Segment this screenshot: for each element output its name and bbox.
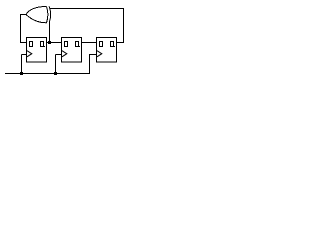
wire: FF2 clock stub xyxy=(55,55,57,74)
flip-flop U4 pin label Q xyxy=(110,41,115,47)
flip-flop U2 clock triangle xyxy=(27,51,32,57)
flip-flop U3 pin label D xyxy=(64,41,68,47)
background xyxy=(0,0,137,90)
wire: FF2 Q to FF3 D xyxy=(82,42,97,44)
wire: xor output stub xyxy=(21,14,27,16)
xor gate U1 (mirrored, output at left) xyxy=(26,7,51,23)
wire: xor bottom input tap down xyxy=(49,21,51,43)
flip-flop U2 box xyxy=(27,38,47,63)
wire: into FF1 D xyxy=(20,42,27,44)
wire: FF3 Q out xyxy=(117,42,124,44)
wire: clock rail xyxy=(5,73,90,75)
flip-flop U2 pin label Q xyxy=(40,41,45,47)
junction dot at xor tap xyxy=(48,41,51,44)
flip-flop U3 clock triangle xyxy=(62,51,67,57)
wire: xor output down left side xyxy=(20,14,22,43)
junction dot FF2 clock xyxy=(54,72,57,75)
flip-flop U4 clock triangle xyxy=(97,51,102,57)
flip-flop U4 box xyxy=(97,38,117,63)
flip-flop U3 box xyxy=(62,38,82,63)
flip-flop U3 pin label Q xyxy=(75,41,80,47)
wire: FF1 Q to FF2 D xyxy=(47,42,62,44)
junction dot FF1 clock xyxy=(20,72,23,75)
flip-flop U4 pin label D xyxy=(99,41,103,47)
wire: feedback top horizontal xyxy=(50,8,124,10)
wire: feedback right vertical xyxy=(123,9,125,44)
wire: FF1 clock stub xyxy=(21,55,23,74)
wire: FF3 clock stub xyxy=(89,54,91,74)
flip-flop U2 pin label D xyxy=(29,41,33,47)
